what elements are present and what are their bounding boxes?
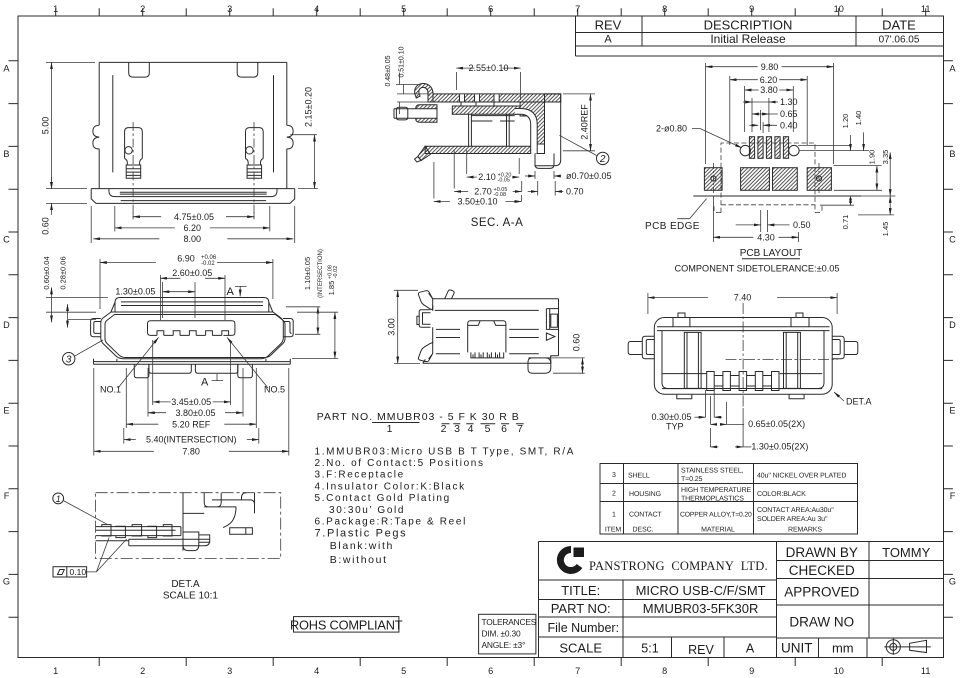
svg-text:7: 7: [575, 666, 580, 676]
svg-text:Blank:with: Blank:with: [330, 540, 394, 552]
dim 2.70: [454, 150, 522, 192]
bottom-left leg: [418, 146, 431, 160]
svg-text:DRAW NO: DRAW NO: [789, 615, 854, 630]
svg-text:PART NO:: PART NO:: [551, 601, 611, 616]
interior lines: [435, 310, 539, 353]
balloon 3: [62, 353, 74, 365]
dim 4.30: [713, 196, 798, 242]
right dims 0.71 1.45: [820, 196, 895, 215]
svg-text:8.00: 8.00: [184, 234, 202, 244]
svg-text:1: 1: [53, 666, 58, 676]
svg-text:3: 3: [454, 423, 461, 435]
svg-text:PCB EDGE: PCB EDGE: [645, 221, 700, 232]
left ear: [628, 336, 654, 359]
dim 1.30: [752, 98, 769, 132]
contacts in section: [469, 114, 510, 146]
centerlines: [726, 303, 838, 408]
right latch: [546, 309, 558, 341]
svg-text:2.60±0.05: 2.60±0.05: [172, 268, 212, 278]
insulator bottom between pegs: [149, 364, 238, 373]
svg-text:2: 2: [441, 423, 448, 435]
dim 5.20 REF: [126, 368, 256, 428]
svg-text:A: A: [227, 286, 235, 298]
svg-text:A: A: [201, 377, 209, 389]
svg-text:A: A: [604, 34, 612, 46]
dim 0.30 TYP: [706, 390, 715, 417]
svg-text:CONTACT: CONTACT: [629, 512, 662, 519]
svg-text:DESCRIPTION: DESCRIPTION: [704, 18, 793, 33]
svg-text:3.00: 3.00: [387, 318, 397, 336]
svg-text:0.60: 0.60: [41, 217, 51, 235]
front lip bracket: [417, 310, 431, 328]
svg-text:4.30: 4.30: [757, 233, 775, 243]
svg-text:PCB LAYOUT: PCB LAYOUT: [740, 248, 803, 259]
outer shell: [654, 318, 832, 395]
right ear: [283, 319, 293, 337]
dim 6.90: [100, 259, 273, 309]
svg-text:1: 1: [56, 494, 61, 504]
base flange lines: [94, 359, 291, 365]
top edge tabs: [673, 313, 809, 327]
svg-text:mm: mm: [832, 641, 854, 656]
right dims 1.90 3.35: [834, 166, 883, 191]
svg-text:NO.5: NO.5: [264, 385, 285, 395]
svg-text:6: 6: [488, 666, 493, 676]
svg-text:E: E: [3, 405, 9, 415]
svg-text:7.40: 7.40: [734, 293, 752, 303]
dim 0.48 / 0.51 left: [396, 73, 430, 115]
svg-text:DESC.: DESC.: [633, 527, 654, 534]
svg-text:10: 10: [834, 4, 844, 14]
svg-text:8: 8: [662, 666, 667, 676]
svg-text:D: D: [3, 320, 10, 330]
dim 8.00: [91, 206, 295, 243]
svg-text:9: 9: [749, 666, 754, 676]
svg-text:7: 7: [575, 4, 580, 14]
svg-text:0.50: 0.50: [793, 220, 811, 230]
svg-text:3.45±0.05: 3.45±0.05: [171, 397, 211, 407]
svg-text:7: 7: [517, 423, 524, 435]
peg holes in pads: [711, 176, 716, 181]
svg-text:7.Plastic Pegs: 7.Plastic Pegs: [315, 528, 408, 540]
dim 0.60: [552, 358, 585, 373]
svg-text:10: 10: [834, 666, 844, 676]
svg-text:1.30: 1.30: [780, 97, 798, 107]
contact bend to solder peg: [515, 109, 538, 154]
svg-text:-0.05: -0.05: [498, 178, 511, 184]
left lip with contact: [416, 105, 437, 123]
contact strip: [96, 527, 181, 541]
svg-text:C: C: [3, 234, 10, 244]
svg-text:3.80: 3.80: [760, 85, 778, 95]
svg-text:C: C: [949, 234, 956, 244]
svg-text:PART NO. MMUBR03 - 5 F K 30 R: PART NO. MMUBR03 - 5 F K 30 R B: [317, 411, 520, 423]
svg-text:5.20 REF: 5.20 REF: [172, 419, 211, 429]
pcb layout: [645, 62, 895, 274]
tongue lines: [461, 102, 515, 121]
svg-text:G: G: [3, 576, 10, 586]
svg-text:2: 2: [140, 666, 145, 676]
dim ø0.70±0.05: [535, 171, 554, 179]
svg-text:TYP: TYP: [666, 422, 684, 432]
side view: [387, 290, 585, 373]
svg-text:D: D: [949, 320, 956, 330]
contact pin right: [246, 128, 264, 179]
svg-text:3: 3: [66, 354, 72, 365]
flange / solder wings: [91, 189, 295, 204]
svg-text:ROHS COMPLIANT: ROHS COMPLIANT: [290, 617, 403, 632]
svg-text:MATERIAL: MATERIAL: [701, 527, 735, 534]
flatness symbol box: [53, 567, 87, 577]
peg columns: [684, 332, 800, 388]
svg-text:HIGH TEMPERATURE: HIGH TEMPERATURE: [681, 487, 752, 494]
dim 0.65: [761, 110, 778, 130]
2-ø0.80 holes: [740, 145, 750, 155]
svg-text:TOMMY: TOMMY: [882, 545, 930, 560]
svg-text:COPPER ALLOY,T=0.20: COPPER ALLOY,T=0.20: [680, 512, 752, 519]
svg-text:REMARKS: REMARKS: [788, 527, 822, 534]
shell outline top view: [91, 62, 295, 188]
center block: [468, 321, 506, 353]
svg-text:B: B: [3, 149, 9, 159]
svg-text:1.20: 1.20: [841, 114, 850, 129]
title block: [539, 542, 944, 658]
dim 3.80±0.05: [148, 368, 243, 417]
svg-text:PANSTRONG COMPANY LTD.: PANSTRONG COMPANY LTD.: [589, 559, 768, 573]
svg-text:2-ø0.80: 2-ø0.80: [656, 124, 687, 134]
svg-text:(INTERSECTION): (INTERSECTION): [318, 249, 324, 298]
svg-text:3.50±0.10: 3.50±0.10: [458, 197, 498, 207]
svg-text:1.90: 1.90: [868, 150, 877, 165]
svg-text:3.F:Receptacle: 3.F:Receptacle: [315, 470, 405, 481]
dim 3.00: [394, 290, 420, 363]
svg-text:0.40: 0.40: [780, 121, 798, 131]
tongue with contacts: [148, 321, 235, 336]
svg-text:DET.A: DET.A: [846, 397, 872, 407]
left ear: [91, 319, 101, 337]
svg-text:B: B: [949, 149, 955, 159]
dim 0.28±0.06: [68, 319, 96, 321]
svg-text:4: 4: [314, 4, 319, 14]
svg-text:0.51±0.10: 0.51±0.10: [399, 46, 406, 77]
notes text: [315, 446, 576, 566]
dim 1.30±0.05: [163, 282, 196, 318]
dim 2.40REF: [563, 94, 595, 151]
right dims 1.20 1.40: [798, 146, 869, 151]
svg-text:NO.1: NO.1: [100, 385, 121, 395]
svg-text:5.Contact Gold Plating: 5.Contact Gold Plating: [315, 493, 451, 504]
svg-text:0.70: 0.70: [566, 187, 584, 197]
svg-text:8: 8: [662, 4, 667, 14]
svg-text:6.20: 6.20: [760, 75, 778, 85]
left edge spring bumps: [93, 125, 99, 149]
svg-text:Initial Release: Initial Release: [710, 32, 786, 46]
svg-text:ø0.70±0.05: ø0.70±0.05: [566, 171, 611, 181]
dash-dot border: [96, 493, 281, 559]
balloon 2: [597, 152, 609, 164]
svg-text:-0.02: -0.02: [333, 266, 339, 279]
shell top-left curl: [415, 83, 433, 102]
dim 2.60±0.05: [160, 275, 225, 320]
contact pin left: [125, 128, 143, 179]
svg-text:MICRO USB-C/F/SMT: MICRO USB-C/F/SMT: [636, 583, 766, 598]
svg-text:0.60: 0.60: [572, 334, 582, 352]
mating contact bar: [394, 109, 437, 119]
dim 1.10±0.05 INTERSECTION: [286, 307, 320, 335]
top edge notches: [129, 62, 258, 77]
right edge spring bumps: [287, 125, 293, 149]
svg-text:7.80: 7.80: [182, 446, 200, 456]
tolerances box: [479, 614, 537, 654]
dim 3.80: [745, 86, 794, 132]
svg-text:2.10: 2.10: [478, 172, 496, 182]
dim 4.75±0.05: [133, 212, 254, 219]
svg-text:1.85: 1.85: [327, 281, 336, 296]
svg-text:0.30±0.05: 0.30±0.05: [652, 412, 692, 422]
dim 1.30 (2X): [710, 408, 743, 447]
svg-text:6.Package:R:Tape & Reel: 6.Package:R:Tape & Reel: [315, 516, 467, 527]
svg-text:0.48±0.05: 0.48±0.05: [385, 55, 392, 86]
dim 0.40: [763, 122, 777, 133]
top shell plate hatched: [433, 94, 561, 102]
svg-text:SCALE: SCALE: [559, 641, 602, 656]
svg-text:5.00: 5.00: [41, 117, 51, 135]
svg-text:5: 5: [401, 4, 406, 14]
svg-text:SOLDER AREA:Au 3u": SOLDER AREA:Au 3u": [757, 516, 828, 523]
svg-text:4.75±0.05: 4.75±0.05: [174, 212, 214, 222]
dim 6.20: [730, 76, 807, 145]
dim 9.80: [706, 63, 834, 164]
svg-text:30:30u’ Gold: 30:30u’ Gold: [329, 505, 405, 516]
insulator body right: [129, 493, 255, 551]
svg-text:3.80±0.05: 3.80±0.05: [176, 408, 216, 418]
svg-text:6.90: 6.90: [177, 253, 195, 263]
tongue hatched strip: [452, 106, 520, 114]
svg-text:3: 3: [227, 666, 232, 676]
svg-text:DRAWN BY: DRAWN BY: [786, 545, 858, 560]
svg-text:T=0.25: T=0.25: [681, 476, 703, 483]
svg-text:TOLERANCES: TOLERANCES: [482, 617, 537, 627]
svg-text:SEC. A-A: SEC. A-A: [471, 217, 524, 229]
rohs compliant box: [290, 617, 403, 633]
third angle projection symbol: [884, 638, 931, 655]
svg-text:-0.02: -0.02: [201, 261, 215, 267]
svg-text:COLOR:BLACK: COLOR:BLACK: [757, 491, 806, 498]
svg-text:1.30±0.05: 1.30±0.05: [115, 287, 155, 297]
svg-text:5.40(INTERSECTION): 5.40(INTERSECTION): [146, 435, 237, 445]
inner wall lines: [113, 75, 274, 172]
pin pads hatched: [749, 137, 754, 159]
svg-text:1.MMUBR03:Micro USB B T Type,: 1.MMUBR03:Micro USB B T Type, SMT, R/A: [315, 446, 576, 457]
svg-text:6: 6: [501, 423, 508, 435]
svg-text:1: 1: [387, 423, 394, 435]
svg-text:G: G: [949, 576, 956, 586]
part number callout: [317, 411, 524, 435]
bottom view: [628, 293, 871, 452]
svg-text:3.35: 3.35: [881, 150, 890, 165]
svg-text:2.55±0.10: 2.55±0.10: [469, 63, 509, 73]
dim 0.60±0.04: [46, 298, 108, 313]
svg-text:1.40: 1.40: [854, 111, 863, 126]
svg-text:ANGLE: ±3°: ANGLE: ±3°: [482, 640, 526, 650]
shell inner line: [105, 315, 285, 358]
svg-text:REV: REV: [688, 643, 714, 657]
svg-text:UNIT: UNIT: [781, 641, 813, 656]
svg-text:0.65: 0.65: [780, 109, 798, 119]
svg-text:11: 11: [921, 666, 931, 676]
shell lid: [111, 298, 273, 313]
svg-text:1.10±0.05: 1.10±0.05: [303, 257, 312, 290]
body outline: [423, 299, 559, 364]
svg-text:1: 1: [53, 4, 58, 14]
svg-text:2.No. of Contact:5 Positions: 2.No. of Contact:5 Positions: [315, 458, 485, 469]
rev table: [575, 16, 943, 56]
svg-text:SCALE 10:1: SCALE 10:1: [163, 591, 218, 602]
svg-text:4: 4: [314, 666, 319, 676]
dim 2.15±0.20: [290, 135, 318, 189]
svg-text:STAINLESS STEEL,: STAINLESS STEEL,: [681, 467, 744, 474]
svg-text:SHELL: SHELL: [628, 473, 650, 480]
material table: [600, 464, 857, 534]
det A: [53, 493, 281, 602]
svg-text:11: 11: [921, 4, 931, 14]
dim 2.55±0.10: [456, 72, 520, 100]
svg-text:1.45: 1.45: [881, 222, 890, 237]
dim 0.50: [761, 210, 768, 232]
svg-text:COMPONENT SIDETOLERANCE:±0.05: COMPONENT SIDETOLERANCE:±0.05: [674, 264, 839, 274]
svg-text:0.71: 0.71: [841, 215, 850, 230]
bottom contacts comb: [662, 374, 822, 389]
svg-text:HOUSING: HOUSING: [629, 491, 661, 498]
svg-text:0.10: 0.10: [70, 567, 87, 577]
dim 1.85: [292, 312, 338, 358]
top seam tab: [445, 290, 454, 299]
inner band lines: [657, 327, 830, 331]
shell body outline: [101, 312, 283, 359]
svg-text:A: A: [949, 63, 956, 73]
dim 5.40 INTERSECTION: [124, 428, 259, 444]
bottom tabs: [677, 394, 804, 399]
svg-text:1: 1: [612, 512, 616, 519]
pin centerlines: [133, 122, 254, 220]
svg-text:F: F: [4, 491, 10, 501]
svg-text:ITEM: ITEM: [605, 527, 622, 534]
svg-text:THERMOPLASTICS: THERMOPLASTICS: [681, 495, 744, 502]
svg-text:5: 5: [401, 666, 406, 676]
svg-text:F: F: [950, 491, 956, 501]
svg-text:1.30±0.05(2X): 1.30±0.05(2X): [751, 442, 808, 452]
svg-text:4.Insulator Color:K:Black: 4.Insulator Color:K:Black: [315, 481, 466, 492]
svg-text:A: A: [746, 642, 755, 656]
svg-text:07'.06.05: 07'.06.05: [879, 35, 920, 46]
dim 7.40: [648, 293, 837, 314]
dim 2.10: [467, 150, 520, 174]
svg-text:File Number:: File Number:: [548, 621, 620, 635]
svg-text:9: 9: [749, 4, 754, 14]
pcb edge line: [693, 195, 861, 197]
svg-text:MMUBR03-5FK30R: MMUBR03-5FK30R: [643, 601, 759, 616]
svg-text:6: 6: [488, 4, 493, 14]
balloon 1: [53, 493, 64, 504]
svg-text:40u" NICKEL OVER PLATED: 40u" NICKEL OVER PLATED: [757, 473, 846, 480]
top view: [41, 62, 318, 244]
svg-text:CONTACT AREA:Au30u": CONTACT AREA:Au30u": [757, 507, 834, 514]
logo mark: [560, 549, 579, 570]
component dashed outline: [714, 143, 822, 213]
pegs: [134, 364, 252, 378]
dim 3.50±0.10: [434, 162, 522, 202]
svg-text:B:without: B:without: [330, 554, 388, 566]
svg-text:0.28±0.06: 0.28±0.06: [59, 256, 68, 289]
bottom right foot: [528, 356, 551, 374]
svg-text:2: 2: [140, 4, 145, 14]
dim 0.65 (2X): [710, 396, 726, 424]
bottom shell plate hatched: [425, 146, 531, 153]
svg-text:2: 2: [599, 154, 606, 165]
svg-text:DET.A: DET.A: [171, 579, 200, 590]
dim 0.70: [538, 181, 556, 196]
svg-text:2.15±0.20: 2.15±0.20: [304, 87, 314, 127]
svg-text:0.65±0.05(2X): 0.65±0.05(2X): [748, 419, 805, 429]
top-left wing: [418, 291, 432, 310]
svg-text:4: 4: [468, 423, 475, 435]
svg-text:REV: REV: [595, 18, 622, 33]
sec A-A: [385, 46, 611, 229]
solder pads hatched: [704, 168, 722, 191]
solder peg: [535, 154, 554, 169]
svg-text:9.80: 9.80: [761, 62, 779, 72]
svg-text:2.70: 2.70: [474, 187, 492, 197]
front view: [42, 249, 339, 456]
svg-text:A: A: [3, 63, 10, 73]
svg-text:0.60±0.04: 0.60±0.04: [42, 256, 51, 289]
flatness leaders: [87, 538, 127, 572]
comb teeth: [471, 352, 504, 358]
dim 3.45±0.05: [153, 340, 231, 405]
svg-text:TITLE:: TITLE:: [561, 583, 600, 598]
dim 7.80: [94, 368, 289, 456]
right shell block: [520, 102, 544, 144]
svg-text:E: E: [949, 405, 955, 415]
svg-text:DIM. ±0.30: DIM. ±0.30: [482, 629, 521, 639]
dim 5.00: [46, 62, 95, 188]
right ear: [832, 336, 858, 359]
svg-text:2.40REF: 2.40REF: [580, 104, 590, 140]
svg-text:DATE: DATE: [882, 18, 916, 33]
svg-text:CHECKED: CHECKED: [789, 563, 855, 578]
dim 0.60: [46, 202, 87, 204]
crimp teeth: [102, 525, 172, 538]
svg-text:2: 2: [612, 491, 616, 498]
svg-text:3: 3: [227, 4, 232, 14]
bottom-left wing: [418, 343, 432, 364]
inner insulator outline: [662, 331, 824, 389]
dim 6.20: [115, 206, 270, 231]
svg-text:5:1: 5:1: [641, 642, 658, 656]
svg-text:6.20: 6.20: [184, 223, 202, 233]
svg-text:5: 5: [485, 423, 492, 435]
svg-text:3: 3: [612, 472, 616, 479]
svg-text:APPROVED: APPROVED: [784, 585, 859, 600]
